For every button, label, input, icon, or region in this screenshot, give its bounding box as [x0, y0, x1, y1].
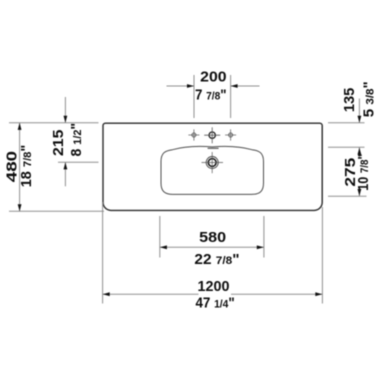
right extension line middle — [328, 146, 365, 148]
faucet hole center — [204, 127, 220, 143]
dimension 200 extension line left — [193, 75, 195, 118]
dimension 200 leader right — [231, 85, 260, 87]
dimension 275 arrow up — [358, 148, 362, 155]
dimension 480 arrow up — [18, 123, 22, 130]
dimension 580 arrow left — [160, 245, 167, 249]
dimension 200 arrow right — [231, 84, 238, 88]
svg-text:1200: 1200 — [198, 279, 230, 295]
dimension 200 leader left — [167, 85, 195, 87]
dimension 275 leader bottom — [358, 187, 360, 197]
svg-text:22 7/8": 22 7/8" — [194, 252, 239, 268]
faucet hole left — [188, 129, 199, 140]
dimension 135 arrow — [358, 116, 362, 123]
dimension 1200 extension line left — [102, 202, 104, 304]
left extension line middle — [58, 161, 99, 163]
dimension 480 arrow down — [18, 204, 22, 211]
dimension 200 arrow left — [187, 84, 194, 88]
left extension line top — [9, 122, 99, 124]
dimension 200 extension line right — [230, 75, 232, 118]
dimension 580 arrow right — [257, 245, 264, 249]
svg-text:215: 215 — [51, 130, 67, 156]
svg-text:7 7/8": 7 7/8" — [195, 88, 227, 104]
dimension 580 extension line left — [159, 216, 161, 258]
svg-text:5 3/8": 5 3/8" — [361, 81, 377, 117]
dimension 480 line — [19, 123, 21, 212]
dimension 1200 line right segment — [231, 293, 322, 295]
dimension 1200 extension line right — [321, 207, 323, 304]
svg-text:200: 200 — [200, 70, 226, 86]
dimension 215 arrow down — [64, 116, 68, 123]
svg-text:580: 580 — [199, 230, 226, 246]
washbasin outer outline — [103, 123, 322, 210]
svg-text:10 7/8": 10 7/8" — [356, 154, 372, 191]
dimension 1200 arrow left — [103, 292, 110, 296]
dimension 580 extension line right — [263, 216, 265, 258]
dimension 215 arrow up — [64, 162, 68, 169]
dimension 275 leader top — [358, 147, 360, 157]
svg-text:135: 135 — [342, 88, 358, 112]
dimension 580 line — [160, 246, 264, 248]
svg-text:18 7/8": 18 7/8" — [19, 145, 35, 188]
drain hole — [202, 152, 224, 173]
basin inner bowl outline — [161, 146, 264, 194]
svg-text:47 1/4": 47 1/4" — [195, 295, 234, 311]
right extension line bottom — [328, 195, 367, 197]
dimension 1200 line left segment — [103, 293, 199, 295]
dimension 275 arrow down — [358, 189, 362, 196]
dimension 215 leader bottom — [64, 162, 66, 186]
overflow edge tick — [208, 147, 219, 149]
dimension 135 leader — [358, 99, 360, 123]
svg-text:8 1/2": 8 1/2" — [69, 123, 85, 157]
faucet hole right — [225, 129, 236, 140]
left extension line bottom — [9, 210, 104, 212]
right extension line top — [328, 122, 365, 124]
dimension 1200 arrow right — [315, 292, 322, 296]
dimension 215 leader top — [64, 97, 66, 123]
